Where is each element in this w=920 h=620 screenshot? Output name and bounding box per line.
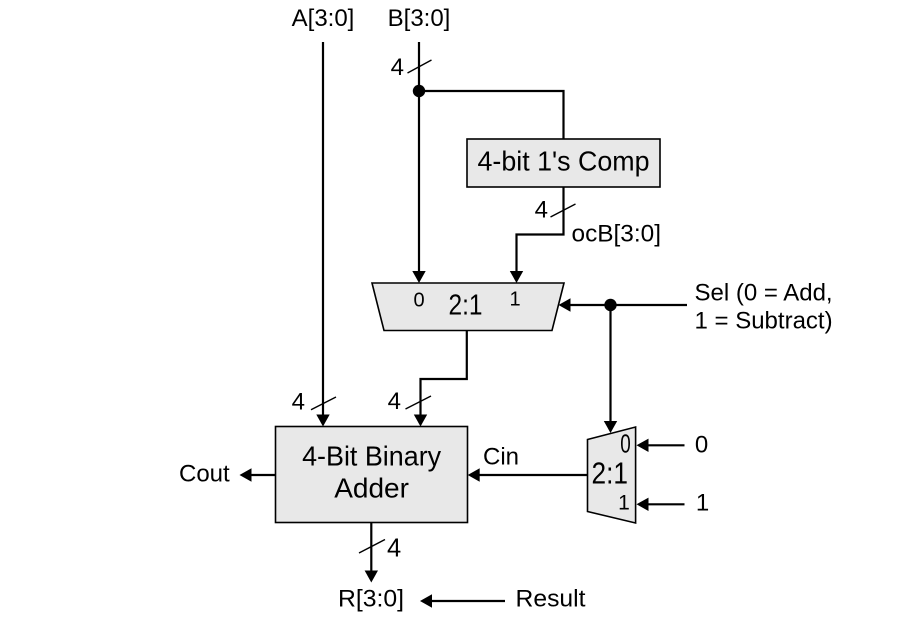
wire adder output R[3:0] (365, 523, 378, 583)
block U2 4-Bit Binary Adder (276, 427, 468, 523)
svg-text:Adder: Adder (334, 473, 409, 504)
svg-text:ocB[3:0]: ocB[3:0] (572, 221, 662, 248)
svg-text:1: 1 (618, 492, 630, 515)
svg-text:4: 4 (387, 534, 401, 562)
bus slash B wire (408, 60, 432, 73)
svg-text:1: 1 (696, 490, 709, 517)
wire 1's comp output to mux1 input 1 (510, 187, 564, 283)
bus slash A wire (311, 397, 336, 410)
wire Sel into mux1 select (559, 298, 688, 311)
wire A[3:0] vertical into adder (316, 42, 329, 427)
svg-text:2:1: 2:1 (592, 456, 629, 491)
svg-text:4: 4 (292, 389, 305, 416)
svg-text:4: 4 (391, 54, 404, 81)
svg-text:B[3:0]: B[3:0] (388, 5, 451, 32)
junction dot on Sel wire (604, 299, 616, 311)
svg-text:4-Bit Binary: 4-Bit Binary (302, 441, 441, 472)
svg-text:4: 4 (535, 197, 548, 224)
wire junction to 1's comp input (419, 91, 564, 139)
wire Sel junction down to mux2 select (604, 305, 617, 433)
svg-text:A[3:0]: A[3:0] (292, 5, 355, 32)
mux M1 2:1 trapezoid (372, 283, 564, 331)
block U1 4-bit 1's Comp (467, 139, 660, 187)
svg-text:0: 0 (413, 290, 424, 312)
junction dot on B wire (413, 85, 425, 97)
wire mux1 output to adder input (414, 331, 467, 427)
svg-text:0: 0 (695, 431, 708, 458)
bus slash adder output (359, 540, 385, 554)
wire Cout out of adder (240, 468, 276, 481)
mux M2 2:1 trapezoid (588, 427, 636, 523)
svg-text:4-bit 1's Comp: 4-bit 1's Comp (478, 146, 650, 177)
svg-text:Cin: Cin (483, 444, 519, 471)
svg-text:2:1: 2:1 (449, 290, 483, 322)
svg-text:Sel (0 = Add,: Sel (0 = Add, (695, 280, 833, 307)
wire constant 1 into mux2 input 1 (637, 498, 685, 511)
svg-text:4: 4 (388, 388, 401, 415)
wire mux2 output to adder Cin (468, 468, 588, 481)
wire constant 0 into mux2 input 0 (637, 439, 685, 452)
svg-text:1: 1 (509, 289, 520, 311)
svg-text:1 = Subtract): 1 = Subtract) (695, 308, 833, 335)
svg-text:Result: Result (516, 586, 586, 613)
svg-text:0: 0 (620, 428, 631, 458)
wire B[3:0] vertical into mux1 input 0 (412, 42, 425, 283)
wire Result arrow to R[3:0] (420, 594, 505, 607)
svg-text:Cout: Cout (179, 461, 230, 488)
bus slash mux1 output (406, 396, 432, 409)
svg-text:R[3:0]: R[3:0] (338, 586, 404, 613)
bus slash comp output (551, 204, 576, 217)
